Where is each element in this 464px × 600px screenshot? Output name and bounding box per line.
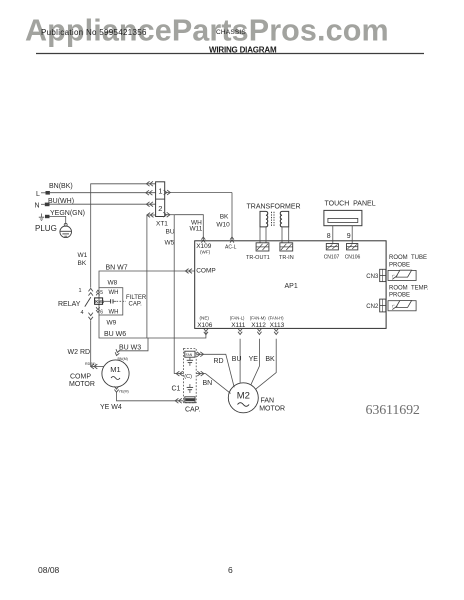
watermark AppliancePartsPros.com	[25, 14, 389, 48]
arrow into M1 left	[91, 364, 98, 369]
svg-text:W1: W1	[78, 252, 88, 259]
wire stub XT1-2 left	[147, 214, 156, 216]
transformer secondary leads	[282, 227, 289, 243]
wire label 8	[327, 233, 331, 240]
svg-text:08/08: 08/08	[38, 565, 60, 575]
comp motor M1 circle	[102, 360, 129, 387]
svg-text:8: 8	[327, 233, 331, 240]
arrow out C1 FAN	[197, 352, 204, 357]
arrow into COMP pin	[185, 269, 192, 274]
wire label W11	[190, 225, 203, 232]
svg-text:FAN: FAN	[186, 353, 193, 357]
svg-text:MOTOR: MOTOR	[69, 381, 95, 388]
svg-text:BN(BK): BN(BK)	[49, 183, 73, 190]
capacitor C1 outline	[184, 348, 197, 402]
svg-text:CN3: CN3	[366, 274, 379, 280]
label TRANSFORMER	[247, 204, 301, 211]
arrow into C1 C	[176, 371, 183, 376]
connector CN107	[326, 244, 338, 250]
svg-text:CAP.: CAP.	[185, 406, 200, 413]
svg-text:2: 2	[158, 204, 162, 213]
svg-text:YE(M): YE(M)	[119, 390, 129, 394]
chassis label	[216, 29, 246, 36]
label PLUG	[35, 224, 57, 233]
svg-text:(C): (C)	[184, 374, 192, 380]
svg-text:BN W7: BN W7	[106, 265, 128, 272]
wire BU W6 run	[99, 315, 206, 338]
wire XT1-1 to AC-L	[165, 192, 232, 194]
X109 connector label	[196, 243, 212, 254]
M1 top tiny label	[118, 357, 128, 361]
title WIRING DIAGRAM	[209, 46, 277, 55]
relay contact arrows top	[88, 288, 93, 295]
svg-text:COMP: COMP	[196, 268, 216, 275]
connector TR-IN	[280, 243, 293, 251]
svg-text:FAN: FAN	[261, 397, 275, 404]
filter capacitor symbol	[103, 299, 126, 303]
svg-text:WH: WH	[109, 310, 119, 316]
svg-text:RELAY: RELAY	[58, 301, 81, 308]
relay pin 1 label	[79, 288, 82, 294]
connector XT1 box	[156, 182, 165, 217]
svg-text:1: 1	[158, 187, 162, 196]
wire label 9	[347, 233, 351, 240]
svg-text:AC-L: AC-L	[225, 245, 237, 251]
svg-text:TOUCH PANEL: TOUCH PANEL	[325, 201, 376, 208]
wire label W2 RD	[68, 349, 91, 356]
svg-text:CN107: CN107	[324, 254, 340, 260]
svg-text:(WF): (WF)	[200, 249, 211, 254]
label CN2	[366, 304, 379, 310]
svg-text:X106: X106	[197, 322, 213, 329]
svg-text:4: 4	[81, 310, 84, 316]
svg-text:X113: X113	[270, 322, 285, 329]
connector CN106	[347, 244, 358, 250]
svg-text:6: 6	[100, 309, 103, 315]
svg-text:YE W4: YE W4	[100, 404, 122, 411]
label CN107	[324, 254, 340, 260]
connector CN2	[380, 299, 386, 312]
wire label BU W3	[119, 344, 141, 351]
label COMP MOTOR	[69, 373, 95, 388]
wire label BN	[203, 380, 213, 387]
wire YE W4	[117, 393, 184, 401]
svg-text:BU W6: BU W6	[104, 331, 126, 338]
svg-text:BU: BU	[232, 356, 242, 363]
label ROOM TUBE PROBE	[389, 255, 427, 268]
label CAP.	[185, 406, 200, 413]
room tube probe thermistor	[388, 270, 416, 280]
relay contact arrows bottom	[88, 313, 93, 320]
relay coil pin5 arrow	[96, 290, 100, 295]
svg-text:PROBE: PROBE	[389, 293, 410, 299]
footer page number	[228, 565, 233, 575]
arrow from X111	[238, 329, 242, 335]
arrow out XT1-2	[163, 212, 170, 217]
arrow out C1 C	[197, 371, 204, 376]
svg-text:BN: BN	[203, 380, 213, 387]
C1 FAN terminal	[185, 351, 195, 357]
wire label BN W7	[106, 265, 128, 272]
C1 (C) label	[184, 374, 192, 380]
room temp probe thermistor	[388, 301, 416, 311]
wire label BU(WH)	[48, 198, 74, 205]
svg-text:RD(M): RD(M)	[85, 362, 96, 366]
svg-text:COMP: COMP	[70, 373, 91, 380]
label TR-IN	[279, 255, 294, 261]
svg-text:MOTOR: MOTOR	[259, 405, 285, 412]
svg-text:X112: X112	[251, 322, 266, 329]
wire label YE W4	[100, 404, 122, 411]
relay coil KM1	[95, 298, 105, 304]
label XT1	[156, 221, 168, 228]
X112 pin label	[250, 316, 266, 330]
wire X111 BU to M2	[239, 339, 241, 383]
svg-text:W11: W11	[190, 225, 203, 232]
wire X113 BK to M2	[255, 339, 276, 390]
svg-text:W5: W5	[165, 239, 175, 246]
svg-text:AP1: AP1	[285, 283, 298, 290]
wire label BU	[232, 356, 242, 363]
ground symbol at plug	[39, 214, 44, 221]
arrow into XT1-2a	[146, 202, 153, 207]
wire label W10	[216, 222, 230, 229]
wire label BU W6	[104, 331, 126, 338]
svg-text:(NE): (NE)	[200, 316, 210, 321]
wire to AC-L	[231, 193, 233, 241]
X111 pin label	[230, 316, 246, 330]
svg-text:BK: BK	[265, 356, 275, 363]
M1 bottom tiny label	[119, 390, 129, 394]
arrow out XT1-1	[164, 190, 171, 195]
arrow out M1 bottom	[114, 386, 118, 392]
svg-text:M2: M2	[237, 391, 250, 402]
svg-text:YEGN(GN): YEGN(GN)	[50, 210, 85, 217]
wire BU W3 branch	[119, 338, 149, 351]
svg-text:CN2: CN2	[366, 304, 379, 310]
touch panel wire 9	[351, 226, 353, 244]
svg-text:CAP.: CAP.	[129, 302, 143, 308]
wire label BK	[220, 213, 229, 220]
svg-text:BK: BK	[78, 260, 87, 267]
fan motor M2 circle	[228, 383, 258, 413]
wire W5 BU vertical	[174, 215, 183, 374]
pin arrow X109	[201, 237, 205, 243]
wire label RD	[214, 358, 224, 365]
drawing number 63611692	[366, 403, 420, 418]
arrow from X112	[257, 329, 261, 335]
touch panel inner bar	[328, 218, 358, 222]
arrow into CAP comp	[175, 398, 182, 403]
svg-text:XT1: XT1	[156, 221, 168, 228]
svg-text:FILTER: FILTER	[126, 295, 147, 301]
svg-text:PROBE: PROBE	[389, 263, 410, 269]
svg-text:YE: YE	[249, 356, 259, 363]
AC-L pin label	[225, 245, 237, 251]
svg-text:ROOM TEMP.: ROOM TEMP.	[389, 285, 429, 291]
C1 COMP terminal	[185, 397, 195, 403]
COMP pin label	[196, 268, 216, 275]
label AP1	[285, 283, 298, 290]
connector CN3	[380, 269, 386, 281]
wire label WH top	[109, 290, 119, 296]
svg-text:BU W3: BU W3	[119, 344, 141, 351]
svg-text:PLUG: PLUG	[35, 224, 57, 233]
C1 cap element top	[187, 357, 193, 366]
svg-text:N: N	[35, 203, 40, 210]
svg-text:(FAN-M): (FAN-M)	[250, 316, 266, 321]
svg-text:6: 6	[228, 565, 233, 575]
arrow from X113	[274, 329, 278, 335]
relay pin 6 label	[100, 309, 103, 315]
svg-text:W2 RD: W2 RD	[68, 349, 91, 356]
svg-text:5: 5	[100, 290, 103, 296]
control board AP1	[195, 241, 386, 329]
relay contact blade	[85, 297, 91, 307]
XT1 pin 2 label	[158, 204, 162, 213]
wire label W8	[108, 280, 118, 287]
svg-text:M1: M1	[110, 365, 120, 374]
svg-text:L: L	[36, 191, 40, 198]
wire XT1 left branch down	[146, 215, 148, 338]
svg-text:9: 9	[347, 233, 351, 240]
label ROOM TEMP PROBE	[389, 285, 429, 298]
wire XT1-2 out	[165, 214, 175, 216]
pin arrow AC-L	[230, 237, 234, 243]
label N	[35, 203, 40, 210]
touch panel box	[324, 210, 362, 225]
wire label W9	[107, 319, 117, 326]
relay coil pin6 arrow	[96, 307, 100, 312]
relay pin 5 label	[100, 290, 103, 296]
svg-text:KM1: KM1	[95, 299, 105, 304]
connector TR-OUT1	[256, 243, 269, 251]
wire label WH	[191, 220, 202, 227]
wire to X109	[174, 215, 203, 241]
C1 cap element bottom	[187, 384, 193, 393]
transformer secondary winding	[280, 211, 288, 227]
wire YEGN to earth	[50, 216, 66, 224]
svg-text:(FAN-H): (FAN-H)	[268, 316, 284, 321]
svg-text:W10: W10	[216, 222, 230, 229]
label CN106	[345, 254, 361, 260]
arrow into X106	[204, 329, 208, 335]
wire label WH bottom	[109, 310, 119, 316]
svg-text:W8: W8	[108, 280, 118, 287]
wire label W1 BK	[78, 252, 88, 267]
wire label BN(BK)	[49, 183, 73, 190]
publication number text	[41, 28, 147, 37]
wire W1 BK vertical	[90, 193, 92, 288]
wire BN(BK) L to XT1	[50, 192, 156, 194]
svg-text:(FAN-L): (FAN-L)	[230, 316, 245, 321]
wire BN to M2	[206, 374, 231, 394]
arrow into M1 top	[114, 349, 120, 356]
svg-text:X111: X111	[231, 322, 246, 329]
touch panel wire 8	[332, 226, 334, 244]
wire C1 FAN to RD	[196, 354, 234, 387]
XT1 pin 1 label	[158, 187, 162, 196]
svg-text:1: 1	[79, 288, 82, 294]
label C1	[172, 386, 181, 393]
wire X112 YE to M2	[251, 339, 260, 385]
label L	[36, 191, 40, 198]
wire label YEGN(GN)	[50, 210, 85, 217]
svg-text:WH: WH	[109, 290, 119, 296]
svg-text:BK: BK	[220, 213, 229, 220]
svg-text:TR-IN: TR-IN	[279, 255, 294, 261]
transformer core	[272, 212, 275, 227]
wire label BU W5	[165, 229, 175, 247]
svg-text:Publication No 5995421356: Publication No 5995421356	[41, 28, 147, 37]
wire branch node to XT1 row1	[91, 184, 156, 193]
wire label YE	[249, 356, 259, 363]
arrow into XT1-1b	[146, 190, 153, 195]
wire BN W7 to COMP	[99, 271, 195, 288]
svg-text:CHASSIS: CHASSIS	[216, 29, 246, 36]
arrow into XT1-1a	[146, 181, 153, 186]
wire C1 C to BN	[196, 373, 205, 375]
wire label BK	[265, 356, 275, 363]
terminal N	[41, 203, 50, 207]
wire BU(WH) N to XT1	[50, 203, 156, 205]
transformer primary leads	[260, 227, 266, 243]
wire into M1 left	[91, 366, 104, 368]
label FAN MOTOR	[259, 397, 285, 412]
svg-text:W9: W9	[107, 319, 117, 326]
footer date	[38, 565, 60, 575]
label RELAY	[58, 301, 81, 308]
svg-text:RD: RD	[214, 358, 224, 365]
transformer primary winding	[260, 211, 268, 227]
svg-text:C1: C1	[172, 386, 181, 393]
label FILTER CAP.	[126, 295, 147, 308]
X113 pin label	[268, 316, 284, 330]
svg-text:ROOM TUBE: ROOM TUBE	[389, 255, 427, 261]
X106 pin label	[197, 316, 213, 330]
relay pin 4 label	[81, 310, 84, 316]
label TR-OUT1	[246, 255, 270, 261]
filter cap loop box	[99, 288, 123, 315]
svg-text:63611692: 63611692	[366, 403, 420, 418]
svg-text:CN106: CN106	[345, 254, 361, 260]
terminal L	[41, 191, 50, 195]
wire W2 RD vertical	[90, 320, 92, 366]
label TOUCH PANEL	[325, 201, 376, 208]
svg-text:BU: BU	[166, 229, 175, 236]
terminal GND	[45, 215, 50, 218]
header rule	[36, 53, 424, 55]
earth electrode symbol	[60, 223, 72, 237]
svg-text:TRANSFORMER: TRANSFORMER	[247, 204, 301, 211]
label CN3	[366, 274, 379, 280]
M1 left tiny label	[85, 362, 96, 366]
arrow stub left	[147, 213, 154, 218]
svg-text:TR-OUT1: TR-OUT1	[246, 255, 270, 261]
